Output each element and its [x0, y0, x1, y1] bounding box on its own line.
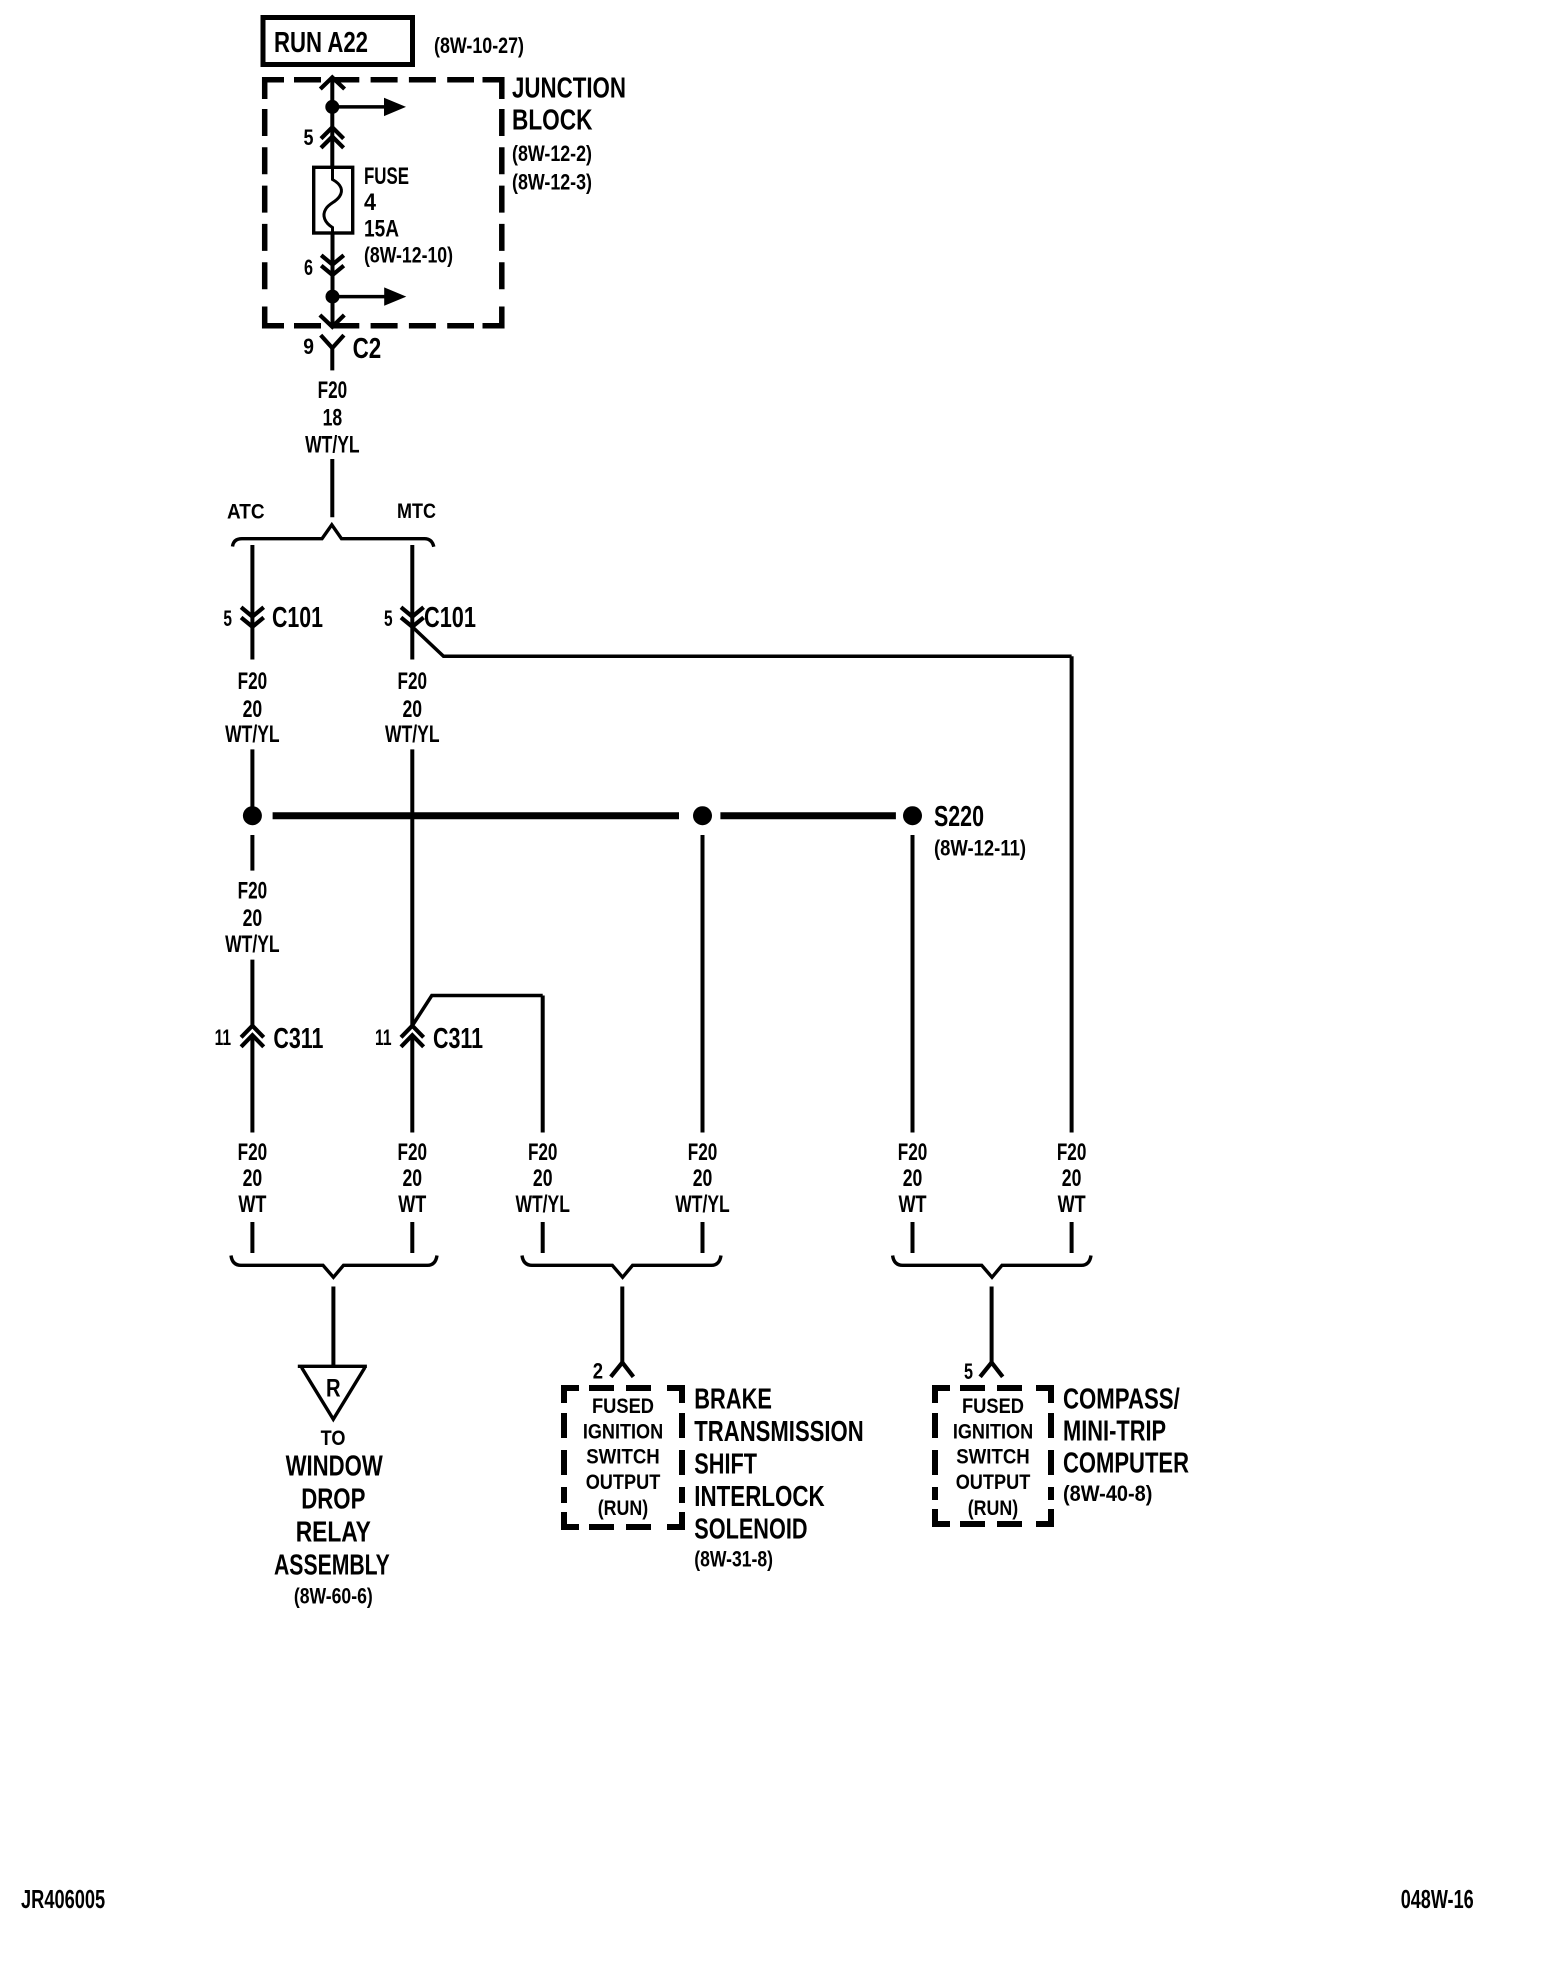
svg-text:ATC: ATC	[227, 501, 265, 524]
wire label F20 20 WT/YL (MTC)	[385, 668, 440, 748]
svg-text:6: 6	[304, 255, 313, 280]
svg-text:COMPASS/: COMPASS/	[1063, 1383, 1180, 1415]
svg-text:SOLENOID: SOLENOID	[694, 1514, 807, 1546]
wire diagonal branch from right C311	[412, 996, 542, 1026]
splice S220 bus line segment 2	[720, 812, 896, 819]
wire stub branch 2	[410, 1222, 414, 1253]
svg-text:F20: F20	[528, 1139, 558, 1166]
arrow up at junction block top border	[320, 77, 344, 89]
svg-text:RELAY: RELAY	[296, 1516, 371, 1548]
svg-text:20: 20	[243, 696, 263, 723]
svg-text:20: 20	[243, 1165, 263, 1192]
svg-text:SWITCH: SWITCH	[586, 1446, 660, 1469]
svg-text:20: 20	[903, 1165, 923, 1192]
dashed box fused ignition switch output (middle)	[561, 1385, 685, 1530]
connector C311 pin 11 chevrons (right)	[401, 1026, 424, 1047]
pin 5 connector chevrons	[321, 127, 344, 148]
svg-text:WT: WT	[238, 1191, 266, 1218]
svg-text:BLOCK: BLOCK	[512, 105, 593, 137]
label COMPASS/ MINI-TRIP COMPUTER	[1063, 1383, 1189, 1506]
wire third branch down	[541, 996, 545, 1133]
svg-text:WT/YL: WT/YL	[305, 432, 360, 459]
wire far right branch down	[1070, 656, 1074, 1132]
merge brace right (compass)	[893, 1256, 1091, 1278]
wire label F20 20 WT/YL (left branch)	[225, 878, 280, 959]
wire label F20 20 WT (branch 1)	[238, 1139, 268, 1218]
wire down to C311 (left)	[250, 960, 254, 1026]
wire label F20 18 WT/YL	[305, 377, 360, 459]
svg-text:F20: F20	[1057, 1139, 1087, 1166]
label BRAKE TRANSMISSION SHIFT INTERLOCK SOLENOID	[694, 1383, 863, 1571]
svg-text:IGNITION: IGNITION	[583, 1420, 663, 1443]
wire ATC down to bus node	[250, 749, 254, 806]
svg-text:20: 20	[403, 696, 423, 723]
svg-text:(8W-12-2): (8W-12-2)	[512, 141, 592, 166]
svg-text:RUN A22: RUN A22	[274, 27, 368, 59]
pin 6 connector chevrons	[321, 255, 344, 275]
connector C101 pin 5 chevrons (ATC)	[241, 607, 264, 627]
arrow right from top node	[332, 98, 406, 116]
svg-text:MINI-TRIP: MINI-TRIP	[1063, 1415, 1166, 1447]
svg-text:5: 5	[384, 606, 393, 631]
wire from label to split brace	[330, 459, 334, 517]
svg-text:11: 11	[215, 1025, 232, 1050]
svg-text:SWITCH: SWITCH	[956, 1446, 1030, 1469]
wire ATC below C101	[250, 627, 254, 660]
svg-text:(8W-60-6): (8W-60-6)	[294, 1584, 373, 1609]
svg-text:F20: F20	[398, 1139, 428, 1166]
svg-text:20: 20	[243, 905, 263, 932]
svg-text:4: 4	[364, 189, 377, 216]
wire right brace down	[990, 1287, 994, 1363]
node dot S220 middle	[693, 806, 712, 825]
svg-text:5: 5	[964, 1359, 973, 1384]
svg-text:F20: F20	[318, 377, 348, 404]
svg-text:F20: F20	[398, 668, 428, 695]
svg-text:INTERLOCK: INTERLOCK	[694, 1481, 824, 1513]
merge brace middle (brake interlock)	[522, 1256, 721, 1278]
wire left brace to relay triangle	[331, 1287, 335, 1367]
svg-text:C311: C311	[273, 1023, 323, 1055]
svg-text:C311: C311	[433, 1023, 483, 1055]
svg-text:FUSE: FUSE	[364, 163, 409, 190]
svg-text:2: 2	[593, 1359, 603, 1384]
node junction dot (bottom)	[326, 290, 340, 304]
svg-text:5: 5	[304, 125, 314, 150]
wire stub branch 6	[1070, 1222, 1074, 1253]
svg-text:BRAKE: BRAKE	[694, 1383, 772, 1415]
svg-text:JUNCTION: JUNCTION	[512, 72, 626, 104]
svg-text:WT/YL: WT/YL	[515, 1191, 570, 1218]
wire below left S220 node	[250, 835, 254, 871]
svg-text:OUTPUT: OUTPUT	[956, 1471, 1031, 1494]
fuse labels FUSE 4 15A (8W-12-10)	[364, 163, 453, 268]
svg-text:WT/YL: WT/YL	[675, 1191, 730, 1218]
svg-text:MTC: MTC	[397, 500, 436, 523]
wire below left C311	[250, 1038, 254, 1133]
svg-text:COMPUTER: COMPUTER	[1063, 1447, 1189, 1479]
wire label F20 20 WT (branch 6)	[1057, 1139, 1087, 1218]
svg-text:C101: C101	[272, 602, 323, 634]
svg-text:WINDOW: WINDOW	[286, 1450, 384, 1482]
svg-text:OUTPUT: OUTPUT	[586, 1471, 661, 1494]
wire label F20 20 WT/YL (ATC)	[225, 668, 280, 748]
svg-text:WT/YL: WT/YL	[225, 931, 280, 958]
wire stub branch 5	[911, 1222, 915, 1253]
svg-text:C101: C101	[424, 602, 476, 634]
connector C2 pin 9 fork	[321, 335, 344, 370]
arrow down at junction block bottom border	[320, 315, 344, 327]
dashed box fused ignition switch output (right)	[932, 1385, 1054, 1527]
connector fork pin 5	[980, 1363, 1003, 1377]
svg-text:TO: TO	[321, 1427, 346, 1450]
svg-text:20: 20	[403, 1165, 423, 1192]
wire ATC branch down to C101	[250, 545, 254, 627]
wire stub branch 1	[250, 1222, 254, 1253]
svg-text:S220: S220	[934, 801, 984, 833]
wire stub branch 3	[541, 1222, 545, 1253]
connector C311 pin 11 chevrons (left)	[241, 1026, 264, 1047]
junction block dashed box	[262, 77, 505, 329]
wire stub branch 4	[701, 1222, 705, 1253]
svg-text:F20: F20	[238, 668, 268, 695]
wire MTC below C101	[410, 627, 414, 660]
fuse F4 15A body	[314, 167, 353, 236]
fuse-box RUN A22 label box	[263, 18, 413, 65]
svg-text:20: 20	[693, 1165, 713, 1192]
svg-text:WT/YL: WT/YL	[385, 721, 440, 748]
wire MTC branch down to C101	[410, 545, 414, 627]
svg-text:WT/YL: WT/YL	[225, 721, 280, 748]
text fused ignition switch output (run) middle	[583, 1395, 663, 1520]
svg-text:15A: 15A	[364, 216, 399, 243]
svg-text:FUSED: FUSED	[592, 1395, 654, 1418]
svg-text:FUSED: FUSED	[962, 1395, 1024, 1418]
svg-text:JR406005: JR406005	[21, 1884, 105, 1914]
svg-text:F20: F20	[688, 1139, 718, 1166]
svg-text:ASSEMBLY: ASSEMBLY	[274, 1549, 390, 1581]
svg-text:IGNITION: IGNITION	[953, 1420, 1033, 1443]
svg-text:R: R	[326, 1375, 341, 1403]
svg-text:DROP: DROP	[301, 1483, 365, 1515]
svg-text:WT: WT	[1058, 1191, 1086, 1218]
svg-text:F20: F20	[238, 878, 268, 905]
merge brace left (window drop relay)	[231, 1256, 437, 1278]
svg-text:18: 18	[323, 404, 343, 431]
wire MTC down through bus to C311	[410, 749, 414, 1025]
svg-text:SHIFT: SHIFT	[694, 1449, 757, 1481]
svg-text:20: 20	[533, 1165, 553, 1192]
wire from top arrow to node	[330, 77, 334, 107]
svg-text:11: 11	[375, 1025, 392, 1050]
svg-text:20: 20	[1062, 1165, 1082, 1192]
svg-text:048W-16: 048W-16	[1401, 1884, 1474, 1914]
svg-text:(8W-40-8): (8W-40-8)	[1063, 1481, 1152, 1506]
svg-text:TRANSMISSION: TRANSMISSION	[694, 1416, 863, 1448]
text fused ignition switch output (run) right	[953, 1395, 1033, 1520]
wire label F20 20 WT (branch 5)	[898, 1139, 928, 1218]
wire from fuse to pin 6 to lower node	[331, 234, 335, 297]
junction block name JUNCTION BLOCK	[512, 72, 626, 194]
label TO WINDOW DROP RELAY ASSEMBLY	[274, 1427, 390, 1608]
connector C101 pin 5 chevrons (MTC)	[401, 607, 424, 627]
wire from node to fuse through pin 5	[330, 107, 334, 167]
splice brace ATC/MTC split	[233, 525, 434, 547]
node dot S220 right	[903, 806, 922, 825]
svg-text:WT: WT	[899, 1191, 927, 1218]
wire label F20 20 WT (branch 2)	[398, 1139, 428, 1218]
svg-text:(8W-12-3): (8W-12-3)	[512, 170, 592, 195]
svg-text:(8W-12-11): (8W-12-11)	[934, 836, 1026, 861]
wire from bottom node to border arrow	[331, 297, 335, 325]
wire below right C311	[410, 1038, 414, 1133]
node dot S220 left	[243, 806, 262, 825]
wire diagonal from MTC C101 to far right branch	[412, 627, 1071, 657]
splice S220 bus line segment 1	[273, 812, 679, 819]
wire label F20 20 WT/YL (branch 3)	[515, 1139, 570, 1218]
svg-text:WT: WT	[398, 1191, 426, 1218]
svg-text:5: 5	[223, 606, 232, 631]
relay triangle symbol R	[298, 1366, 367, 1419]
svg-text:F20: F20	[238, 1139, 268, 1166]
svg-text:C2: C2	[353, 333, 382, 365]
wire label F20 20 WT/YL (branch 4)	[675, 1139, 730, 1218]
svg-text:(8W-12-10): (8W-12-10)	[364, 243, 453, 268]
svg-text:9: 9	[303, 334, 314, 359]
svg-text:(8W-31-8): (8W-31-8)	[694, 1547, 773, 1572]
wire middle brace down	[620, 1287, 624, 1363]
svg-text:(RUN): (RUN)	[968, 1497, 1019, 1520]
wire below right S220 node	[911, 835, 915, 1133]
arrow right from bottom node	[333, 287, 407, 305]
svg-text:(8W-10-27): (8W-10-27)	[434, 33, 524, 58]
connector fork pin 2	[611, 1363, 634, 1377]
wire below middle S220 node	[701, 835, 705, 1133]
svg-text:F20: F20	[898, 1139, 928, 1166]
svg-text:(RUN): (RUN)	[598, 1497, 649, 1520]
node junction dot (top)	[325, 100, 339, 114]
